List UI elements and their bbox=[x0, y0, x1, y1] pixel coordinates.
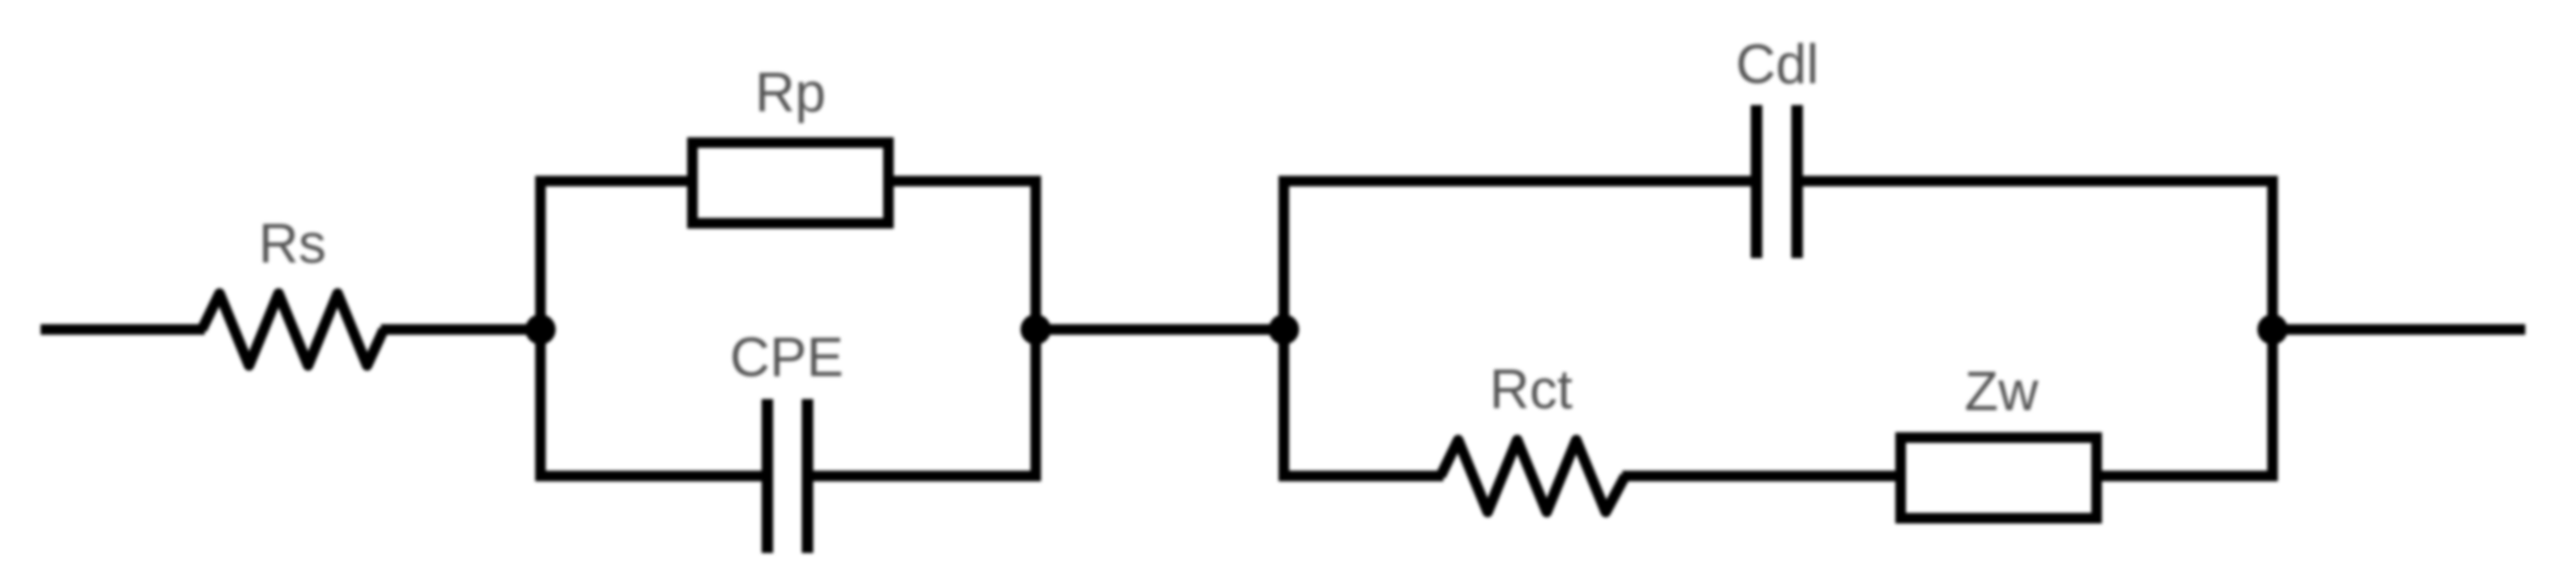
wire output right bbox=[2273, 324, 2525, 335]
wire Rs to node A bbox=[381, 324, 540, 335]
resistor Rs bbox=[202, 294, 384, 366]
wire left branch of parallel block 1 (top-left, left vertical, bottom-left) bbox=[540, 182, 763, 476]
node D junction dot bbox=[2258, 314, 2288, 345]
svg-text:Cdl: Cdl bbox=[1736, 33, 1819, 95]
resistor Rct bbox=[1441, 441, 1625, 512]
svg-text:Rct: Rct bbox=[1490, 359, 1573, 420]
resistor Rp bbox=[693, 143, 889, 224]
node B junction dot bbox=[1021, 314, 1051, 345]
svg-text:Rs: Rs bbox=[258, 213, 326, 275]
svg-text:Zw: Zw bbox=[1965, 360, 2039, 422]
capacitor Cdl plate 1 bbox=[1751, 105, 1763, 258]
wire left branch of parallel block 2 (top-left, left vertical, bottom-left) bbox=[1284, 182, 1751, 476]
wire node B to node C bbox=[1036, 324, 1284, 335]
impedance Zw (Warburg element box) bbox=[1901, 438, 2097, 519]
wire input left bbox=[41, 324, 205, 335]
wire right branch of parallel block 2 (top-right, right vertical, bottom-right) bbox=[1803, 182, 2273, 476]
capacitor CPE plate 2 bbox=[801, 399, 813, 553]
wire Rct to Zw bbox=[1622, 471, 1898, 482]
svg-text:CPE: CPE bbox=[730, 326, 843, 388]
node A junction dot bbox=[526, 314, 556, 345]
capacitor Cdl plate 2 bbox=[1791, 105, 1803, 258]
capacitor CPE plate 1 bbox=[762, 399, 774, 553]
wire right branch of parallel block 1 (top-right, right vertical, bottom-right) bbox=[813, 182, 1037, 476]
svg-text:Rp: Rp bbox=[755, 62, 826, 123]
node C junction dot bbox=[1269, 314, 1300, 345]
